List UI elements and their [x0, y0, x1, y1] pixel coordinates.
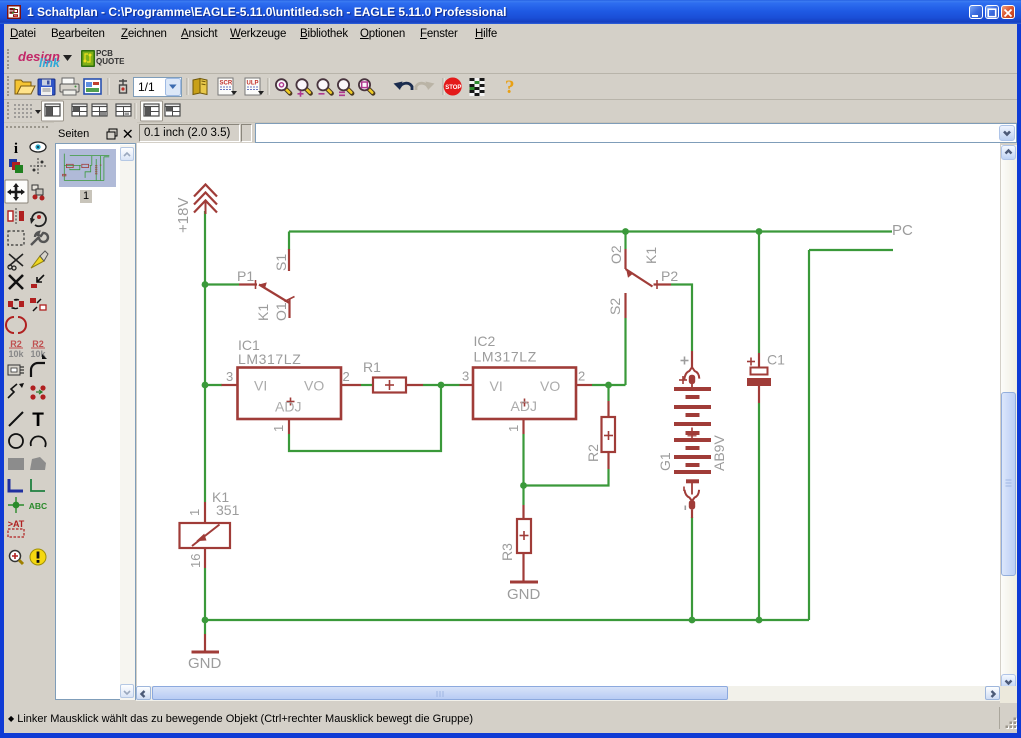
- svg-text:GND: GND: [188, 655, 222, 672]
- switch O1 pin: [288, 299, 290, 318]
- relay coil K1 body: [180, 523, 231, 548]
- svg-text:PC: PC: [892, 222, 913, 239]
- battery G1 bottom clip: [685, 490, 700, 510]
- svg-text:STOP: STOP: [445, 85, 461, 91]
- zoom in: [306, 88, 311, 93]
- vertical scrollbar: [1001, 145, 1017, 690]
- panel scrollbar: [120, 145, 135, 700]
- R2 bottom lead: [607, 452, 609, 469]
- svg-text:ADJ: ADJ: [511, 398, 537, 414]
- zoom redraw: [368, 88, 373, 93]
- wire R3 top: [522, 486, 524, 506]
- svg-text:R2: R2: [585, 444, 601, 462]
- switch K1-1 arm: [259, 282, 295, 303]
- wire right return horizontal: [809, 249, 893, 251]
- toolbar 1 : designlink: [4, 46, 1017, 74]
- svg-text:T: T: [32, 410, 44, 431]
- R3 origin cross: [520, 531, 529, 540]
- toolbar 2: [4, 74, 1017, 100]
- IC2 LM317LZ body: [473, 368, 576, 420]
- wire K1 coil bottom: [204, 568, 206, 620]
- svg-text:R1: R1: [363, 359, 381, 375]
- IC2 ADJ pin lead: [522, 419, 524, 434]
- svg-text:O1: O1: [273, 302, 289, 321]
- R3 bottom lead: [522, 553, 524, 581]
- menu bar: [4, 24, 1017, 46]
- IC1 ADJ origin cross: [287, 398, 295, 406]
- resistor R3 body: [517, 519, 531, 553]
- R1 right lead: [406, 384, 423, 386]
- wire IC2 ADJ: [522, 434, 524, 486]
- svg-text:2: 2: [343, 369, 350, 384]
- svg-text:1: 1: [187, 509, 202, 516]
- C1 bottom plate: [747, 378, 771, 386]
- svg-text:S1: S1: [273, 254, 289, 271]
- svg-text:SCR: SCR: [220, 81, 233, 87]
- window borders: [0, 24, 4, 738]
- svg-text:K1: K1: [255, 304, 271, 321]
- R3 top lead: [522, 505, 524, 519]
- svg-text:3: 3: [462, 369, 469, 384]
- svg-text:1: 1: [506, 425, 521, 432]
- battery G1 pin name plus (gray): [681, 357, 689, 365]
- wire R2 top: [607, 385, 609, 401]
- svg-text:R3: R3: [499, 543, 515, 561]
- node junction IC2 VO/R2: [605, 382, 612, 389]
- svg-text:G1: G1: [657, 452, 673, 471]
- battery G1 bottom short cell: [686, 479, 699, 494]
- thumbnail: [59, 149, 116, 187]
- toolbar 3: [4, 100, 1017, 123]
- svg-text:IC2: IC2: [474, 333, 496, 349]
- ground symbol GND1: [192, 634, 220, 652]
- supply +18V symbol: [194, 185, 217, 215]
- svg-text:O2: O2: [608, 245, 624, 264]
- svg-text:1/1: 1/1: [138, 80, 155, 94]
- svg-text:GND: GND: [507, 586, 541, 603]
- node junction battery bottom: [689, 617, 696, 624]
- wire S1 riser: [288, 232, 290, 251]
- svg-text:LM317LZ: LM317LZ: [238, 351, 301, 367]
- svg-text:>AT: >AT: [8, 519, 25, 529]
- node junction O2 top rail: [622, 228, 629, 235]
- battery G1 top clip: [684, 367, 699, 388]
- svg-text:VI: VI: [490, 378, 503, 394]
- node junction C1 bottom: [756, 617, 763, 624]
- switch S2 pin: [624, 293, 626, 318]
- node junction at IC1 VI: [202, 382, 209, 389]
- IC2 pin 2 lead: [576, 384, 592, 386]
- svg-text:i: i: [14, 141, 18, 157]
- wire O2 drop: [624, 232, 626, 250]
- node junction at P1: [202, 281, 209, 288]
- C1 plus mark: [747, 358, 755, 366]
- svg-text:2: 2: [578, 369, 585, 384]
- wire P2 to battery top: [671, 285, 692, 352]
- zoom out: [327, 88, 332, 93]
- wire top rail N$1: [289, 230, 892, 232]
- ground symbol GND2: [510, 581, 538, 584]
- IC2 ADJ origin cross: [521, 399, 529, 407]
- svg-text:VO: VO: [304, 378, 324, 394]
- svg-text:351: 351: [216, 502, 240, 518]
- R2 origin cross: [604, 431, 613, 440]
- film pattern icon: [470, 78, 475, 81]
- wire battery bottom: [691, 517, 693, 620]
- app icon: [7, 5, 21, 19]
- wire R2 bottom to ADJ node: [524, 469, 609, 486]
- switch P1 pin: [239, 280, 257, 289]
- wire S2 riser: [624, 318, 626, 385]
- K1 pin 16 lead: [204, 548, 206, 568]
- C1 top plate: [751, 368, 768, 375]
- capacitor C1 top lead: [758, 353, 760, 368]
- IC1 LM317LZ body: [238, 368, 342, 420]
- svg-text:K1: K1: [643, 247, 659, 264]
- wire +18V column: [204, 211, 206, 502]
- switch O2 pin: [624, 249, 626, 269]
- C1 bottom lead: [758, 386, 760, 403]
- svg-text:AB9V: AB9V: [711, 435, 727, 471]
- battery G1 mid pin cross: [688, 428, 697, 442]
- svg-text:1: 1: [271, 425, 286, 432]
- R2 top lead: [607, 401, 609, 417]
- wire P1 stub: [205, 283, 239, 285]
- Seiten panel: [54, 122, 137, 703]
- battery G1 minus mark: [683, 487, 685, 492]
- battery G1 cells: [674, 387, 711, 474]
- IC1 pin 3 lead: [222, 384, 238, 386]
- svg-text:16: 16: [188, 554, 203, 568]
- battery G1 bottom lead: [691, 509, 693, 518]
- wire C1 bottom: [758, 403, 760, 620]
- IC2 pin 3 lead: [460, 384, 474, 386]
- wire IC1 ADJ feedback: [289, 385, 441, 451]
- svg-text:+18V: +18V: [175, 198, 192, 233]
- wire IC2 VO to node: [592, 384, 626, 386]
- resistor R2 body: [602, 417, 616, 452]
- switch P2 pin: [654, 280, 672, 289]
- battery G1 plus mark: [679, 376, 687, 384]
- node junction bottom left: [202, 617, 209, 624]
- canvas: [137, 143, 1000, 686]
- wire C1 top: [758, 232, 760, 354]
- wire IC1 VO to R1: [361, 384, 373, 386]
- svg-text:ADJ: ADJ: [275, 399, 301, 415]
- battery G1 top lead: [691, 351, 693, 367]
- wire to IC1 VI: [205, 384, 222, 386]
- svg-text:P1: P1: [237, 268, 254, 284]
- IC1 pin 2 lead: [341, 384, 361, 386]
- node junction C1 top rail: [756, 228, 763, 235]
- resistor R1 body: [373, 378, 406, 393]
- svg-text:LM317LZ: LM317LZ: [474, 349, 537, 365]
- K1 pin 1 lead: [204, 502, 206, 523]
- svg-text:10k: 10k: [8, 349, 24, 359]
- svg-text:3: 3: [226, 369, 233, 384]
- IC1 ADJ pin lead: [288, 419, 290, 434]
- svg-text:ULP: ULP: [247, 81, 259, 87]
- left toolbar area: [4, 122, 54, 703]
- svg-text:VI: VI: [254, 378, 267, 394]
- switch K1-2 arm: [626, 269, 653, 287]
- zoom sel: [347, 88, 352, 93]
- battery G1 pin name minus (gray): [684, 506, 686, 511]
- R1 origin cross: [385, 380, 394, 390]
- zoom fit: [285, 88, 290, 93]
- svg-text:?: ?: [505, 77, 515, 98]
- wire GND stub: [204, 620, 206, 634]
- switch S1 pin: [288, 249, 290, 271]
- svg-text:S2: S2: [607, 298, 623, 315]
- node junction R1/IC2: [438, 382, 445, 389]
- wire bottom rail GND net: [205, 619, 809, 621]
- status bar: [4, 703, 1017, 733]
- svg-text:C1: C1: [767, 352, 785, 368]
- wire right return vertical: [808, 250, 810, 620]
- wire R1 to IC2 VI: [423, 384, 460, 386]
- svg-text:ABC: ABC: [29, 501, 47, 511]
- svg-text:P2: P2: [661, 268, 678, 284]
- node junction ADJ/R3: [520, 482, 527, 489]
- coordinate row: [4, 122, 1017, 146]
- svg-text:VO: VO: [540, 378, 560, 394]
- title bar: [0, 0, 1021, 24]
- horizontal scrollbar: [136, 686, 1000, 701]
